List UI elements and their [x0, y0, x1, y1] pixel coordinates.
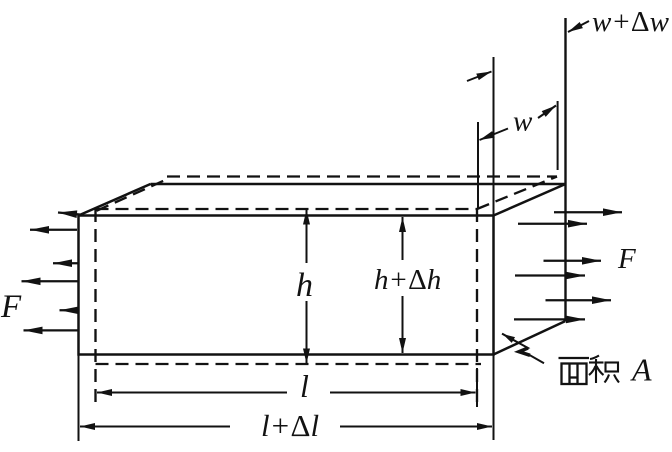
- original block (dashed) top-left depth edge: [97, 179, 169, 211]
- dimension l+Dl arrows: [80, 426, 230, 428]
- svg-text:h: h: [296, 267, 313, 304]
- svg-text:w+Δw: w+Δw: [592, 6, 670, 38]
- extension line l right (below block): [476, 368, 478, 407]
- svg-text:w: w: [513, 106, 533, 138]
- left force arrow 5: [60, 309, 79, 311]
- deformed block top-left depth edge: [79, 184, 151, 216]
- deformed block back top edge: [151, 183, 566, 186]
- leader arrow to w+Dw left extension: [467, 72, 492, 82]
- right force arrow 4: [515, 274, 585, 276]
- original block (dashed) back top edge: [167, 175, 557, 177]
- deformed block front face (solid): [79, 216, 494, 355]
- svg-text:F: F: [617, 243, 636, 275]
- deformed block right face bottom edge: [494, 321, 566, 355]
- dimension h arrows: [306, 210, 308, 264]
- extension line w right: [557, 101, 559, 170]
- right force arrow 3: [544, 260, 602, 262]
- extension line w left: [477, 122, 479, 209]
- svg-text:l: l: [300, 368, 309, 404]
- right force arrow 5: [546, 299, 612, 301]
- dimension h+Dh arrows: [402, 217, 404, 260]
- svg-text:A: A: [630, 352, 652, 388]
- left force arrow 3: [53, 262, 79, 264]
- original block (dashed) top edge: [96, 208, 478, 210]
- left force arrow 1 (at top corner): [58, 213, 80, 215]
- deformed block right face far edge: [564, 18, 566, 321]
- extension line l+Dl left: [78, 355, 80, 442]
- svg-text:l+Δl: l+Δl: [261, 408, 319, 443]
- original block (dashed) top-right depth edge: [477, 177, 557, 210]
- dimension l arrows: [97, 392, 287, 394]
- hanzi mian (face/area): [559, 358, 590, 384]
- left force arrow 6: [24, 329, 79, 331]
- right force arrow 1: [554, 211, 622, 213]
- leader with break mark to area face (mian ji A): [502, 334, 544, 364]
- leader arrow to w left extension: [480, 129, 509, 141]
- left force arrow 4: [22, 280, 79, 282]
- deformed block right face top edge: [494, 184, 566, 216]
- original block (dashed) right edge + extension: [476, 209, 478, 407]
- original block (dashed) bottom edge: [96, 363, 482, 365]
- right force arrow 2: [518, 223, 587, 225]
- leader arrow to w right extension: [538, 106, 556, 119]
- right force arrow 6: [514, 318, 585, 320]
- extension line w+Dw left / l+Dl right: [493, 57, 495, 440]
- left force arrow 2: [30, 229, 77, 231]
- original block (dashed) left edge + extension: [94, 209, 96, 403]
- hanzi ji (product/accumulate): [589, 356, 619, 384]
- svg-text:h+Δh: h+Δh: [374, 264, 441, 296]
- svg-text:F: F: [0, 289, 22, 325]
- leader arrow to w+Dw right extension: [568, 21, 589, 32]
